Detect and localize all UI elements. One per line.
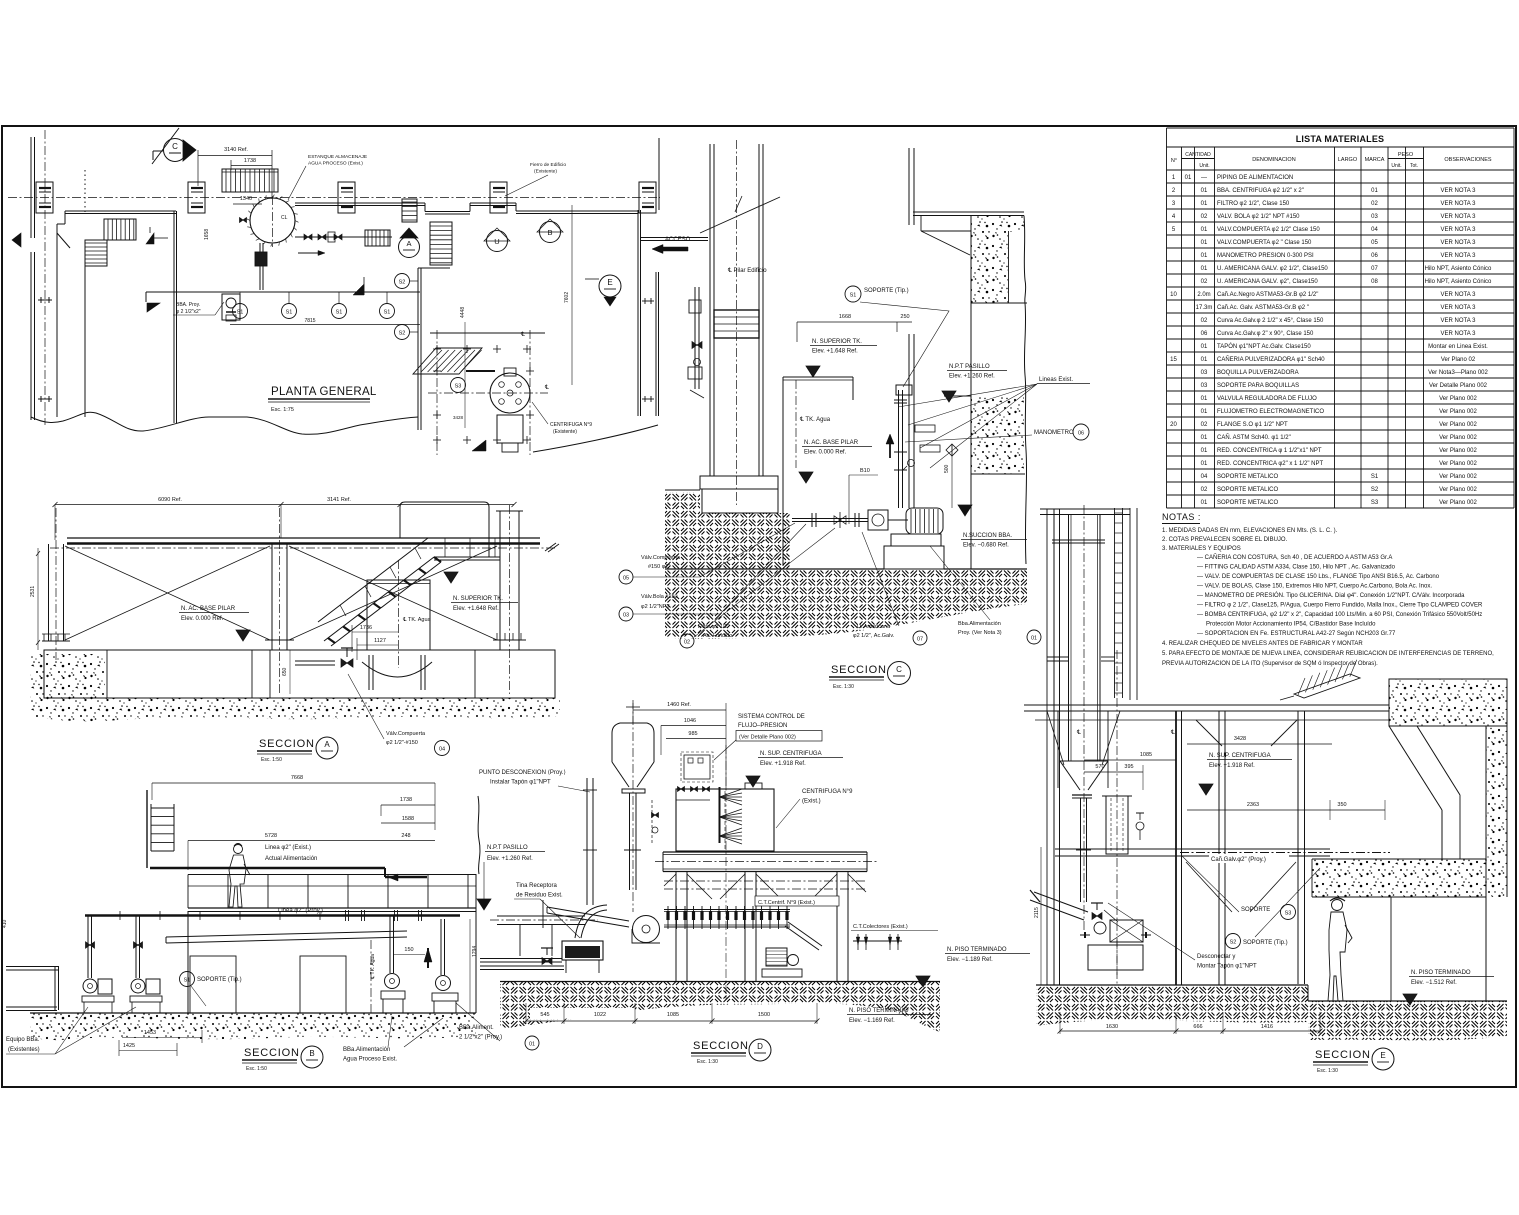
section marker C: [164, 139, 187, 162]
svg-text:Filtro φ2 1/2": Filtro φ2 1/2": [698, 624, 730, 630]
svg-text:CENTRIFUGA N°9: CENTRIFUGA N°9: [550, 422, 592, 428]
N SUCCION BBA label: [958, 505, 972, 516]
svg-text:AGUA PROCESO (Exist.): AGUA PROCESO (Exist.): [308, 161, 363, 167]
svg-text:3. MATERIALES Y EQUIPOS: 3. MATERIALES Y EQUIPOS: [1162, 546, 1241, 552]
existing pump 2: [131, 979, 145, 993]
svg-text:02: 02: [1201, 422, 1208, 428]
svg-text:1022: 1022: [594, 1012, 606, 1018]
svg-text:Cañ.Galv.φ2" (Proy.): Cañ.Galv.φ2" (Proy.): [1211, 857, 1266, 863]
wall right of platform: [417, 268, 419, 430]
svg-text:FLUJO–PRESION: FLUJO–PRESION: [738, 723, 787, 729]
svg-text:02: 02: [1201, 279, 1208, 285]
floor lines E: [1036, 984, 1308, 986]
svg-text:Cañ.Ac.Negro ASTMA53-Gr.B φ2 1: Cañ.Ac.Negro ASTMA53-Gr.B φ2 1/2": [1217, 292, 1318, 298]
cyclone vessel: [1068, 514, 1070, 761]
svg-text:Esc. 1:30: Esc. 1:30: [697, 1059, 718, 1065]
svg-text:02: 02: [1201, 214, 1208, 220]
svg-text:S2: S2: [399, 331, 406, 337]
svg-text:1416: 1416: [1261, 1024, 1273, 1030]
svg-text:SOPORTE (Tip.): SOPORTE (Tip.): [864, 288, 909, 294]
svg-text:Esc. 1:30: Esc. 1:30: [1317, 1068, 1338, 1074]
svg-text:— FILTRO φ 2 1/2", Clase125,: — FILTRO φ 2 1/2", Clase125, P/Agua, Cue…: [1197, 603, 1483, 609]
svg-text:B: B: [547, 228, 552, 237]
chute diagonals: [1389, 726, 1442, 810]
N SUPERIOR TK label A: [444, 572, 458, 583]
existing small lines glyphs: [915, 425, 935, 432]
svg-text:C: C: [896, 665, 902, 674]
support circles S1 row: [233, 304, 248, 319]
svg-text:TAPÓN φ1"NPT Ac.Galv. Clase150: TAPÓN φ1"NPT Ac.Galv. Clase150: [1217, 343, 1311, 350]
yard piping D: [480, 958, 562, 960]
svg-text:φ2 1/2"-#150: φ2 1/2"-#150: [386, 740, 418, 746]
svg-text:02: 02: [1201, 487, 1208, 493]
ground speckle band A: [30, 698, 560, 721]
svg-text:φ2 1/2"NPT: φ2 1/2"NPT: [641, 604, 670, 610]
walkway floor: [188, 907, 476, 909]
S3 circle: [451, 378, 466, 393]
svg-text:248: 248: [401, 833, 410, 839]
svg-text:PREVIA AUTORIZACION DE LA ITO: PREVIA AUTORIZACION DE LA ITO (Superviso…: [1162, 661, 1378, 667]
svg-text:D: D: [757, 1042, 763, 1051]
svg-text:ESTANQUE ALMACENAJE: ESTANQUE ALMACENAJE: [308, 154, 367, 160]
svg-text:395: 395: [1124, 764, 1133, 770]
wall outer wavy edge: [1024, 303, 1026, 564]
svg-text:Proy. (Ver Nota 3): Proy. (Ver Nota 3): [958, 630, 1002, 636]
svg-text:A: A: [406, 239, 411, 248]
svg-text:Ver Plano 002: Ver Plano 002: [1439, 461, 1477, 467]
svg-text:Ver Plano 002: Ver Plano 002: [1439, 396, 1477, 402]
svg-text:1630: 1630: [1106, 1024, 1118, 1030]
svg-text:01: 01: [1201, 240, 1208, 246]
svg-text:1658: 1658: [204, 229, 210, 240]
svg-text:6090 Ref.: 6090 Ref.: [158, 497, 182, 503]
motor: [906, 508, 943, 534]
svg-text:N.P.T PASILLO: N.P.T PASILLO: [487, 845, 528, 851]
svg-text:01: 01: [1185, 175, 1192, 181]
svg-text:S2: S2: [1371, 487, 1379, 493]
column pilasters on grid: [36, 182, 53, 213]
svg-text:Cañ.Ac. Galv. ASTMA53-Gr.B φ2: Cañ.Ac. Galv. ASTMA53-Gr.B φ2 ": [1217, 305, 1309, 311]
svg-text:01: 01: [1201, 201, 1208, 207]
svg-text:Protección Motor Accionamiento: Protección Motor Accionamiento IP54, C/B…: [1206, 622, 1376, 628]
svg-text:N. PISO TERMINADO: N. PISO TERMINADO: [849, 1008, 909, 1014]
svg-text:Válv.Bola #150: Válv.Bola #150: [641, 594, 678, 600]
TK agua feed pumps: [385, 974, 400, 989]
svg-text:1340: 1340: [240, 196, 252, 202]
svg-text:1588: 1588: [402, 816, 414, 822]
inclined duct: [166, 931, 407, 937]
svg-text:01: 01: [1201, 396, 1208, 402]
flag marker mid plan: [353, 284, 364, 295]
svg-text:#150 φ2": #150 φ2": [648, 564, 670, 570]
svg-text:Ver Plano 002: Ver Plano 002: [1439, 500, 1477, 506]
S1 bracket on wall: [896, 385, 912, 395]
duct to tina: [547, 907, 629, 921]
section view SECCION D: [479, 700, 1030, 1065]
svg-text:S1: S1: [384, 310, 391, 316]
svg-text:LARGO: LARGO: [1338, 157, 1358, 163]
pressure gauge glyph: [908, 460, 915, 467]
svg-text:1794: 1794: [472, 946, 478, 957]
cyclone support skirt: [1057, 711, 1059, 788]
svg-text:08: 08: [1371, 279, 1378, 285]
flag marker mid: [146, 233, 154, 244]
svg-text:7815: 7815: [304, 318, 315, 324]
svg-text:— BOMBA CENTRIFUGA, φ2 1/2" x: — BOMBA CENTRIFUGA, φ2 1/2" x 2", Capaci…: [1197, 612, 1482, 618]
hopper vessel: [612, 723, 654, 733]
svg-text:VER NOTA 3: VER NOTA 3: [1441, 292, 1477, 298]
building pillar (double flange lines): [709, 144, 711, 476]
svg-text:01: 01: [1031, 636, 1037, 642]
svg-text:VER NOTA 3: VER NOTA 3: [1441, 253, 1477, 259]
svg-text:545: 545: [540, 1012, 549, 1018]
pillar connection block: [714, 310, 759, 338]
svg-text:666: 666: [1193, 1024, 1202, 1030]
left yard piping: [6, 966, 58, 968]
svg-text:Ver Plano 02: Ver Plano 02: [1441, 357, 1476, 363]
svg-text:3140 Ref.: 3140 Ref.: [224, 147, 248, 153]
svg-text:410: 410: [2, 919, 8, 928]
floor D: [500, 981, 940, 983]
existing feed pipe (thick): [150, 867, 385, 869]
handrail loop top: [400, 502, 489, 557]
svg-text:N. AC. BASE PILAR: N. AC. BASE PILAR: [804, 440, 859, 446]
svg-text:1085: 1085: [667, 1012, 679, 1018]
right wall of plan inner: [637, 210, 639, 416]
svg-text:DENOMINACION: DENOMINACION: [1252, 157, 1295, 163]
svg-text:VER NOTA 3: VER NOTA 3: [1441, 214, 1477, 220]
door opening E: [1391, 897, 1486, 1001]
svg-text:SOPORTE: SOPORTE: [1241, 907, 1270, 913]
svg-text:Hilo NPT, Asiento Cónico: Hilo NPT, Asiento Cónico: [1425, 279, 1492, 285]
svg-text:Ver Plano 002: Ver Plano 002: [1439, 435, 1477, 441]
svg-text:Elev. −1.169 Ref.: Elev. −1.169 Ref.: [849, 1018, 895, 1024]
svg-text:Elev. +1.260 Ref.: Elev. +1.260 Ref.: [487, 856, 533, 862]
svg-text:1425: 1425: [123, 1043, 135, 1049]
svg-text:S1: S1: [850, 293, 857, 299]
brace diagonals E upper: [1196, 720, 1222, 746]
svg-text:Lineas Exist.: Lineas Exist.: [1039, 377, 1073, 383]
svg-text:01: 01: [1201, 409, 1208, 415]
existing wall post upper: [908, 148, 910, 225]
svg-text:05: 05: [1371, 240, 1378, 246]
S1 support circle and label: [845, 286, 861, 302]
svg-text:01: 01: [1201, 500, 1208, 506]
svg-text:01: 01: [1201, 266, 1208, 272]
svg-text:150: 150: [404, 947, 413, 953]
ground weave band E right: [1308, 1001, 1507, 1040]
svg-text:VER NOTA 3: VER NOTA 3: [1441, 188, 1477, 194]
wall below walkway with doors: [187, 911, 189, 1013]
svg-text:VALV. BOLA φ2 1/2" NPT #150: VALV. BOLA φ2 1/2" NPT #150: [1217, 214, 1300, 220]
svg-text:BBA. Proy.: BBA. Proy.: [176, 302, 200, 308]
svg-text:Elev. −0.680 Ref.: Elev. −0.680 Ref.: [963, 543, 1009, 549]
svg-text:FILTRO φ2 1/2", Clase 150: FILTRO φ2 1/2", Clase 150: [1217, 201, 1290, 207]
svg-text:U. Americana: U. Americana: [857, 624, 891, 630]
svg-text:07: 07: [1371, 266, 1378, 272]
column 1 base: [42, 640, 70, 642]
svg-text:1046: 1046: [684, 718, 696, 724]
svg-text:CENTRIFUGA N°9: CENTRIFUGA N°9: [802, 789, 853, 795]
svg-text:N.P.T PASILLO: N.P.T PASILLO: [949, 364, 990, 370]
svg-text:BBa.Alimentación: BBa.Alimentación: [343, 1047, 390, 1053]
section marker A (plan): [399, 237, 420, 258]
svg-text:1453: 1453: [144, 1030, 156, 1036]
tank inlet valve: [240, 218, 247, 223]
feed box vessel: [1106, 796, 1128, 854]
pillar base plate: [700, 476, 778, 489]
svg-text:de Residuo Exist.: de Residuo Exist.: [516, 893, 563, 899]
svg-text:VER NOTA 3: VER NOTA 3: [1441, 227, 1477, 233]
interior wall lines: [56, 233, 58, 417]
svg-text:S2: S2: [1230, 940, 1237, 946]
svg-text:VALVULA REGULADORA DE FLUJO: VALVULA REGULADORA DE FLUJO: [1217, 396, 1317, 402]
svg-text:℄ TK. Agua: ℄ TK. Agua: [799, 417, 831, 423]
svg-text:07: 07: [917, 637, 923, 643]
svg-text:φ2 1/2", Ac.Galv.: φ2 1/2", Ac.Galv.: [853, 633, 895, 639]
north arrow flag: [12, 233, 21, 247]
svg-text:E: E: [1380, 1051, 1385, 1060]
svg-text:01: 01: [529, 1042, 535, 1048]
pump suction piping: [792, 518, 868, 520]
platform beam E: [1055, 848, 1330, 850]
column far right: [1297, 711, 1299, 984]
svg-text:01: 01: [1201, 435, 1208, 441]
ground weave band D: [500, 982, 940, 1033]
valve under tank: [295, 660, 335, 662]
svg-text:ACCESO: ACCESO: [665, 237, 691, 243]
svg-text:RED. CONCENTRICA φ2" x 1 1/2": RED. CONCENTRICA φ2" x 1 1/2" NPT: [1217, 461, 1324, 467]
frame left column E: [1046, 509, 1048, 985]
svg-text:PLANTA GENERAL: PLANTA GENERAL: [271, 386, 377, 398]
TK tank: [367, 580, 430, 650]
svg-text:01: 01: [1201, 344, 1208, 350]
svg-text:U. AMERICANA GALV. φ2", Clase1: U. AMERICANA GALV. φ2", Clase150: [1217, 279, 1318, 285]
svg-text:℄: ℄: [1170, 730, 1175, 736]
section view SECCION C: [619, 140, 1090, 690]
svg-text:Ver Plano 002: Ver Plano 002: [1439, 409, 1477, 415]
svg-text:Curva Ac.Galv.φ 2" x 90°, Clas: Curva Ac.Galv.φ 2" x 90°, Clase 150: [1217, 331, 1314, 337]
diagonal right bay: [289, 546, 497, 640]
svg-text:01: 01: [1201, 188, 1208, 194]
pump base: [891, 534, 941, 546]
stair handrail: [318, 538, 500, 622]
svg-text:S1: S1: [184, 978, 191, 984]
column right-mid: [1218, 711, 1220, 985]
svg-text:06: 06: [1201, 331, 1208, 337]
svg-text:FLANGE S.O φ1 1/2" NPT: FLANGE S.O φ1 1/2" NPT: [1217, 422, 1288, 428]
inclined duct E: [1034, 892, 1088, 912]
svg-text:SOPORTE (Tip.): SOPORTE (Tip.): [1243, 940, 1288, 946]
svg-text:03: 03: [1201, 383, 1208, 389]
svg-text:02: 02: [1371, 201, 1378, 207]
plan view PLANTA GENERAL: [8, 128, 708, 455]
svg-text:℄ TK. Agua: ℄ TK. Agua: [402, 617, 432, 623]
vertical suction pipe: [898, 390, 900, 508]
svg-text:BBA. CENTRIFUGA φ2 1/2" x 2": BBA. CENTRIFUGA φ2 1/2" x 2": [1217, 188, 1304, 194]
spray header bar: [719, 787, 721, 843]
svg-text:5728: 5728: [265, 833, 277, 839]
right vertical wall of left building: [173, 211, 175, 423]
svg-text:FLUJOMETRO ELECTROMAGNETICO: FLUJOMETRO ELECTROMAGNETICO: [1217, 409, 1324, 415]
column 3 (right): [499, 511, 501, 650]
under-table pipe axes: [664, 880, 866, 882]
ladder right of vessel: [1114, 508, 1116, 698]
svg-text:04: 04: [439, 747, 445, 753]
pump foundation: [884, 546, 944, 569]
svg-text:Unit.: Unit.: [1199, 163, 1209, 169]
section view SECCION B: [2, 775, 598, 1072]
svg-text:℄: ℄: [544, 385, 549, 391]
svg-text:C: C: [172, 142, 178, 151]
svg-text:Agua Proceso Exist.: Agua Proceso Exist.: [343, 1057, 397, 1063]
svg-text:— SOPORTACION EN Fe. ESTRUCTU: — SOPORTACION EN Fe. ESTRUCTURAL A42-27 …: [1197, 631, 1396, 637]
table legs: [675, 872, 677, 982]
svg-text:01: 01: [1201, 461, 1208, 467]
ground line B: [30, 1012, 476, 1014]
svg-text:SISTEMA CONTROL DE: SISTEMA CONTROL DE: [738, 714, 805, 720]
svg-text:— VALV. DE COMPUERTAS DE CLAS: — VALV. DE COMPUERTAS DE CLASE 150 Lbs.,…: [1197, 574, 1440, 580]
svg-text:S1: S1: [336, 310, 343, 316]
column mid: [1175, 711, 1177, 985]
svg-text:VER NOTA 3: VER NOTA 3: [1441, 305, 1477, 311]
svg-text:Tot.: Tot.: [1410, 163, 1418, 169]
svg-text:SECCION: SECCION: [1315, 1049, 1371, 1061]
svg-text:SECCION: SECCION: [259, 738, 315, 750]
svg-text:Elev. +1.918 Ref.: Elev. +1.918 Ref.: [1209, 763, 1255, 769]
wall centerline: [44, 130, 46, 425]
svg-text:SOPORTE METALICO: SOPORTE METALICO: [1217, 500, 1278, 506]
existing pump 1: [83, 979, 97, 993]
svg-text:B: B: [309, 1049, 314, 1058]
S1 soporte label B: [180, 972, 195, 987]
svg-text:(Ver Detalle Plano 002): (Ver Detalle Plano 002): [739, 735, 796, 741]
CT Centrif label: [755, 896, 839, 906]
svg-text:250: 250: [900, 314, 909, 320]
projected feed line (thick): [85, 914, 460, 916]
svg-text:4. REALIZAR CHEQUEO DE NIVELES: 4. REALIZAR CHEQUEO DE NIVELES ANTES DE …: [1162, 641, 1363, 647]
svg-text:SOPORTE (Tip.): SOPORTE (Tip.): [197, 977, 242, 983]
svg-text:OBSERVACIONES: OBSERVACIONES: [1444, 157, 1492, 163]
ground speckle left of footing: [30, 654, 105, 698]
ground speckle band B: [30, 1013, 476, 1040]
dims bottom D: [530, 1008, 585, 1019]
svg-text:NOTAS :: NOTAS :: [1162, 512, 1201, 522]
pump motor D: [766, 948, 787, 966]
svg-text:N. SUP. CENTRIFUGA: N. SUP. CENTRIFUGA: [760, 751, 822, 757]
brace diagonals E lower: [1186, 862, 1232, 912]
svg-text:Ver Detalle Plano 002: Ver Detalle Plano 002: [1429, 383, 1488, 389]
svg-text:— CAÑERIA CON COSTURA, Sch 40: — CAÑERIA CON COSTURA, Sch 40 , DE ACUER…: [1197, 554, 1392, 561]
tina receptora tub: [562, 941, 603, 960]
svg-text:05: 05: [623, 576, 629, 582]
ground weave band E left: [1036, 985, 1308, 1026]
mid concrete band E: [1312, 859, 1486, 897]
svg-text:—: —: [1201, 175, 1207, 181]
svg-text:S1: S1: [286, 310, 293, 316]
stair stringers: [324, 557, 434, 641]
svg-text:2363: 2363: [1247, 802, 1259, 808]
svg-text:PIPING DE ALIMENTACION: PIPING DE ALIMENTACION: [1217, 175, 1293, 181]
svg-text:Elev. 0.000 Ref.: Elev. 0.000 Ref.: [181, 616, 224, 622]
svg-text:01: 01: [1201, 227, 1208, 233]
downpipe E: [1080, 798, 1082, 902]
hopper downpipe: [629, 793, 631, 890]
svg-text:VALV.COMPUERTA φ2 1/2" Clase 1: VALV.COMPUERTA φ2 1/2" Clase 150: [1217, 227, 1320, 233]
svg-text:2. COTAS PREVALECEN SOBRE EL D: 2. COTAS PREVALECEN SOBRE EL DIBUJO.: [1162, 537, 1288, 543]
svg-text:350: 350: [1337, 802, 1346, 808]
roof break diagonal: [700, 197, 780, 233]
worker figure: [1332, 900, 1343, 911]
diamond valve glyph: [946, 444, 958, 456]
centrifuge top box: [676, 789, 774, 851]
flow arrow: [298, 252, 318, 254]
svg-text:S3: S3: [455, 384, 462, 390]
vessel tie brackets: [1047, 656, 1068, 658]
section view SECCION E: [1024, 505, 1507, 1074]
top wall right of tank: [295, 202, 425, 204]
worker on walkway: [234, 845, 243, 854]
svg-text:Válv.Compuerta: Válv.Compuerta: [386, 731, 426, 737]
axis crosses right wall: [642, 300, 654, 302]
dotted column line: [84, 170, 86, 212]
building break edge wavy: [478, 796, 480, 874]
svg-text:CAÑERIA PULVERIZADORA φ1" Sch4: CAÑERIA PULVERIZADORA φ1" Sch40: [1217, 356, 1325, 363]
svg-text:01: 01: [1201, 253, 1208, 259]
main beam E: [1024, 704, 1389, 706]
column 2 (middle): [271, 544, 273, 650]
foundation hatch left: [665, 492, 700, 569]
svg-text:℄: ℄: [1076, 730, 1081, 736]
svg-text:BOQUILLA PULVERIZADORA: BOQUILLA PULVERIZADORA: [1217, 370, 1299, 376]
escalerilla top: [1294, 674, 1360, 698]
svg-text:Actual Alimentación: Actual Alimentación: [265, 856, 317, 862]
spray fans: [720, 789, 743, 797]
svg-text:10: 10: [1170, 292, 1177, 298]
existing wall post lower: [908, 334, 910, 508]
svg-text:VER NOTA 3: VER NOTA 3: [1441, 240, 1477, 246]
svg-text:Esc. 1:75: Esc. 1:75: [271, 407, 294, 413]
svg-text:N. PISO TERMINADO: N. PISO TERMINADO: [1411, 970, 1471, 976]
pillar foundation block: [702, 489, 778, 513]
exchanger box E: [1110, 920, 1143, 942]
svg-text:BBa.Aliment.: BBa.Aliment.: [459, 1025, 494, 1031]
handrail on walkway: [188, 874, 476, 876]
svg-text:CAÑ. ASTM Sch40. φ1 1/2": CAÑ. ASTM Sch40. φ1 1/2": [1217, 434, 1291, 441]
svg-text:LISTA MATERIALES: LISTA MATERIALES: [1296, 134, 1385, 144]
top right wall stub: [658, 138, 660, 210]
svg-text:Unit.: Unit.: [1391, 163, 1401, 169]
cone flange: [1072, 794, 1092, 796]
svg-text:1127: 1127: [374, 638, 386, 644]
svg-text:SOPORTE METALICO: SOPORTE METALICO: [1217, 487, 1278, 493]
svg-text:MANOMETRO: MANOMETRO: [1034, 430, 1074, 436]
pump: [868, 510, 888, 530]
stairs upper (vertical risers): [104, 219, 136, 240]
vertical pipe from tank with valve: [259, 243, 261, 265]
svg-text:PUNTO DESCONEXION ⟨Proy.⟩: PUNTO DESCONEXION ⟨Proy.⟩: [479, 769, 566, 776]
left wall (double line): [30, 137, 32, 238]
svg-text:SOPORTE METALICO: SOPORTE METALICO: [1217, 474, 1278, 480]
stairs lower (horizontal risers): [85, 240, 107, 266]
svg-text:7602: 7602: [564, 292, 570, 303]
svg-text:Hilo NPT, Asiento Cónico: Hilo NPT, Asiento Cónico: [1425, 266, 1492, 272]
flag triangle bottom: [472, 440, 486, 451]
svg-text:Equipo BBa.: Equipo BBa.: [6, 1037, 40, 1043]
stair treads: [328, 638, 335, 643]
dims bottom E: [1060, 1030, 1320, 1032]
svg-text:04: 04: [1201, 474, 1208, 480]
